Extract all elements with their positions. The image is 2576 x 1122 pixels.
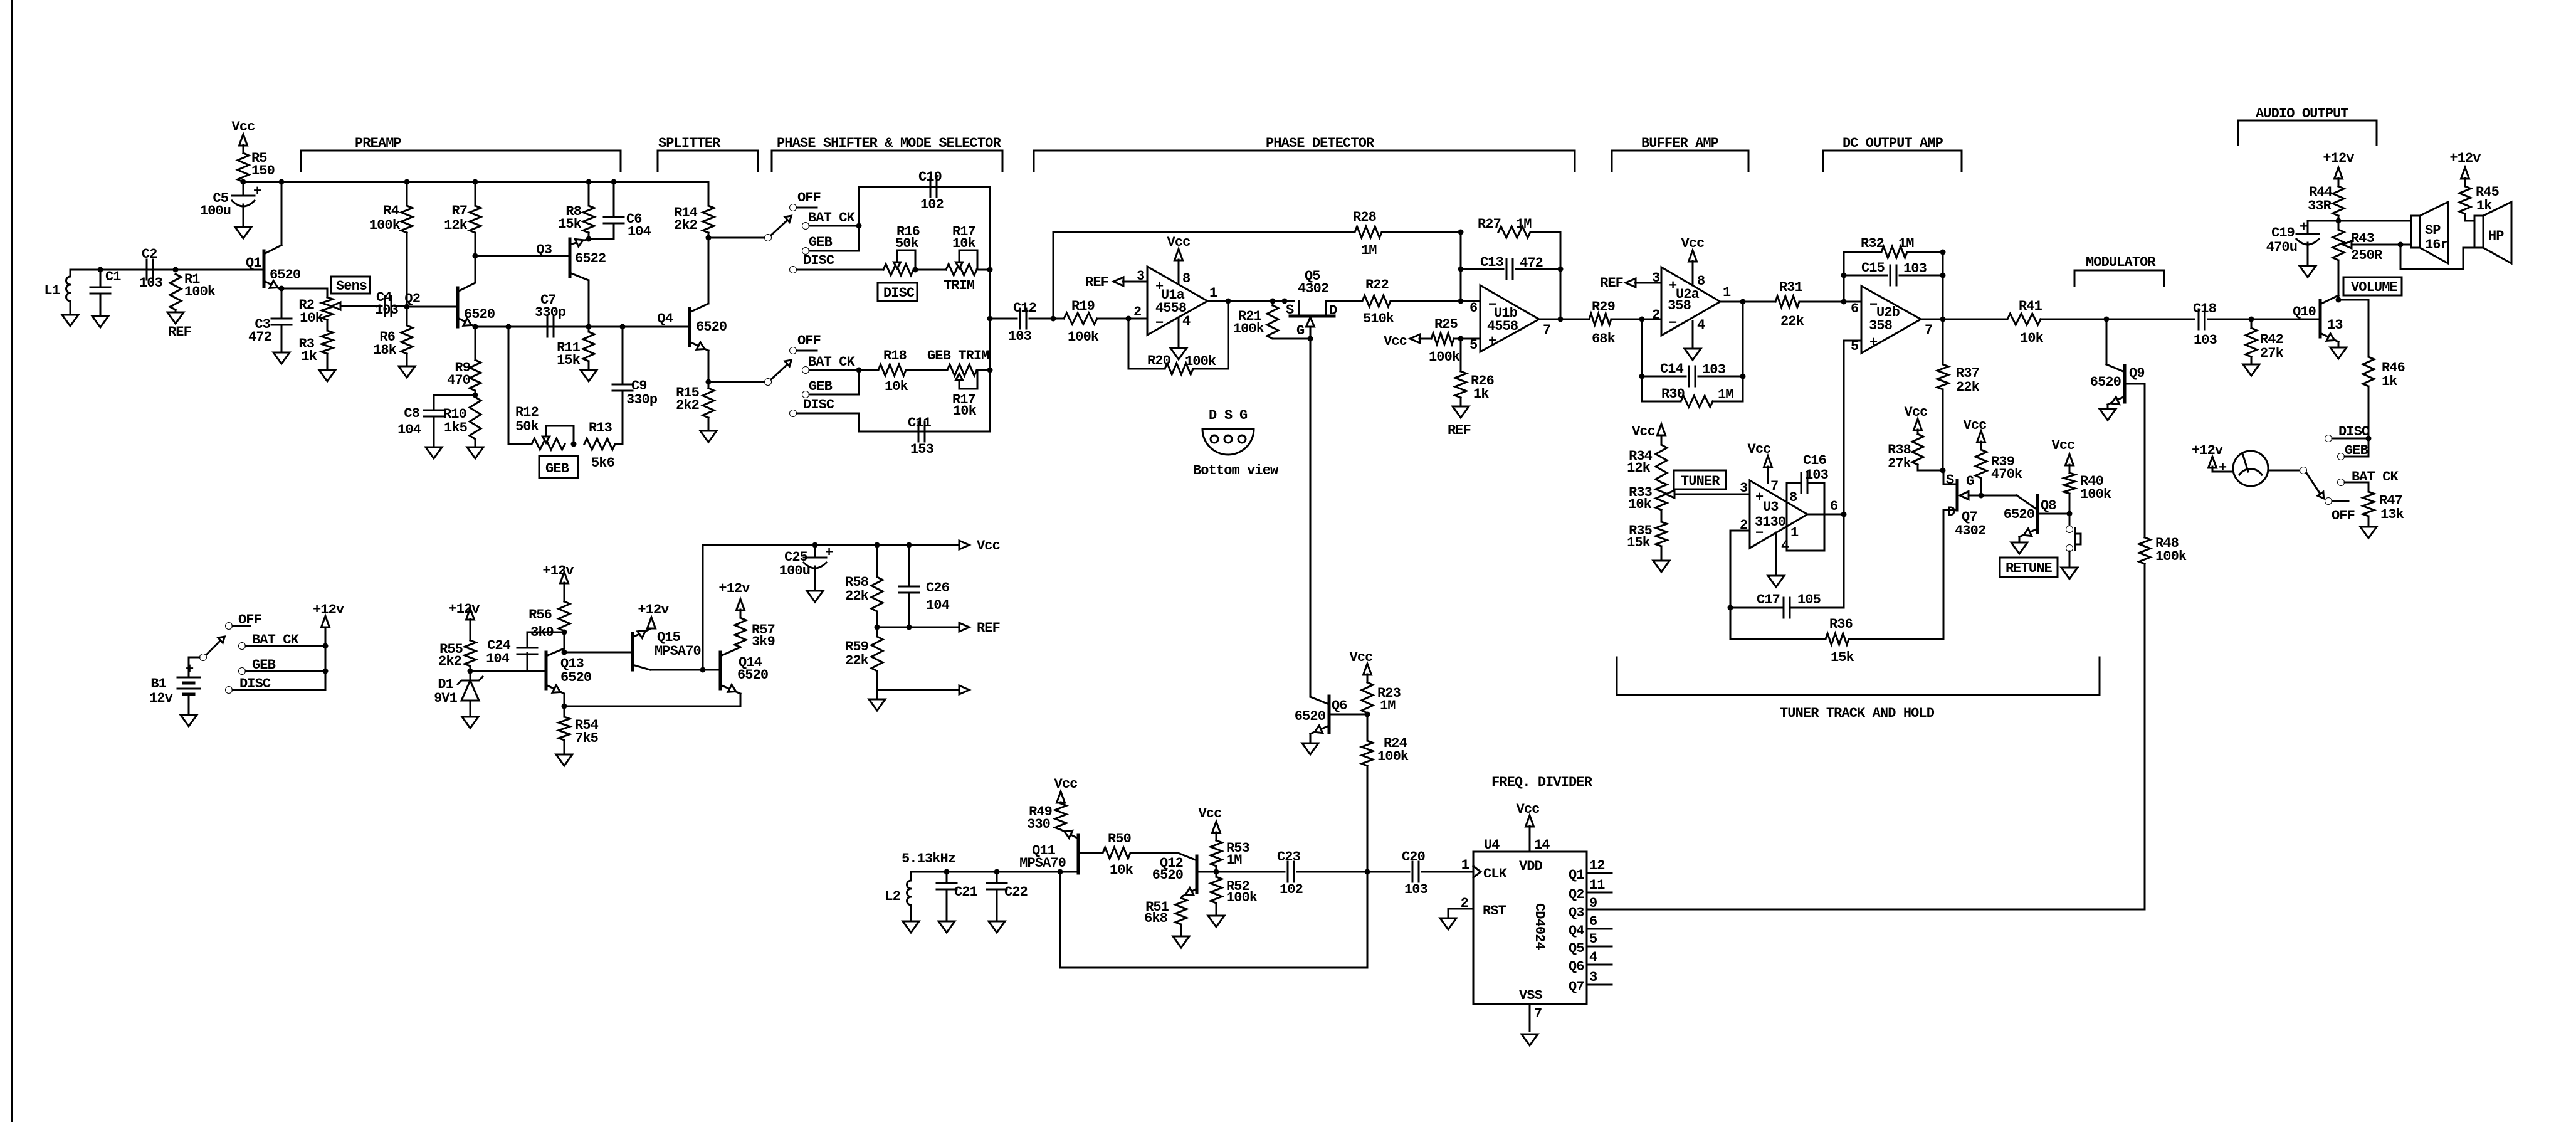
svg-text:470k: 470k: [1991, 467, 2022, 482]
svg-text:Q5: Q5: [1569, 941, 1584, 956]
potentiometer R12: [508, 327, 577, 450]
svg-text:VOLUME: VOLUME: [2351, 280, 2398, 295]
svg-text:1M: 1M: [1361, 243, 1377, 258]
svg-text:7k5: 7k5: [575, 731, 599, 746]
svg-text:100u: 100u: [779, 563, 810, 579]
svg-text:R29: R29: [1592, 299, 1615, 315]
svg-text:SP: SP: [2425, 223, 2441, 238]
svg-text:11: 11: [1589, 877, 1605, 893]
switch upper DISC contact: [790, 253, 834, 273]
wire Q12 to C23: [1216, 871, 1285, 873]
ground below R6: [399, 366, 415, 378]
transistor Q3: [536, 239, 606, 327]
wire Q2 base: [407, 306, 458, 308]
ground below R15: [700, 431, 717, 442]
power +12v at R56: [542, 563, 574, 591]
capacitor C9: [612, 327, 658, 444]
svg-text:7: 7: [1543, 322, 1550, 338]
svg-text:Bottom view: Bottom view: [1193, 463, 1279, 479]
capacitor C17: [1730, 592, 1844, 618]
svg-text:104: 104: [926, 598, 950, 613]
capacitor C5: [200, 182, 261, 219]
label box TUNER: [1674, 470, 1726, 489]
potentiometer R2: [298, 288, 382, 326]
svg-text:Vcc: Vcc: [1632, 424, 1655, 440]
resistor R42: [2246, 319, 2284, 364]
svg-text:15k: 15k: [557, 352, 581, 368]
ground U2a pin4: [1685, 321, 1701, 360]
svg-text:TUNER TRACK AND HOLD: TUNER TRACK AND HOLD: [1780, 706, 1935, 721]
svg-text:22k: 22k: [1956, 379, 1980, 395]
svg-text:12k: 12k: [1627, 460, 1651, 476]
svg-text:470u: 470u: [2266, 240, 2297, 255]
resistor R32 feedback: [1841, 236, 1946, 319]
svg-text:HP: HP: [2488, 228, 2504, 244]
resistor R46: [2363, 300, 2405, 438]
inductor L2: [885, 872, 911, 921]
power Vcc U1a pin8: [1167, 235, 1191, 284]
svg-text:8: 8: [1697, 273, 1705, 289]
svg-text:BAT CK: BAT CK: [252, 632, 300, 648]
wire Vcc rail supply: [703, 542, 959, 670]
svg-text:B1: B1: [150, 676, 166, 692]
node R4 R6 C4 junction: [404, 304, 410, 310]
resistor R53: [1199, 806, 1250, 872]
svg-text:C13: C13: [1480, 255, 1504, 270]
svg-text:Vcc: Vcc: [1681, 236, 1705, 251]
svg-text:OFF: OFF: [797, 333, 821, 349]
svg-text:6: 6: [1589, 914, 1597, 929]
resistor R3: [298, 320, 333, 364]
svg-text:103: 103: [139, 275, 163, 291]
resistor R57: [718, 581, 775, 650]
wire U1b output: [1539, 317, 1589, 322]
wire Q2 emitter node: [473, 324, 690, 330]
svg-text:1M: 1M: [1380, 698, 1396, 714]
switch upper pole: [765, 216, 792, 241]
svg-text:Vcc: Vcc: [1517, 802, 1540, 817]
svg-text:G: G: [1239, 408, 1248, 423]
svg-text:Q3: Q3: [536, 242, 552, 258]
resistor R35: [1627, 510, 1667, 561]
svg-text:6520: 6520: [1295, 709, 1325, 724]
svg-text:C11: C11: [908, 415, 932, 431]
svg-text:4: 4: [1589, 950, 1597, 965]
svg-text:R43: R43: [2351, 231, 2375, 246]
transistor Q10: [2293, 295, 2343, 347]
zener D1: [434, 671, 483, 717]
svg-text:G: G: [1966, 474, 1974, 489]
ground below R35: [1653, 561, 1669, 572]
capacitor C23: [1277, 849, 1303, 897]
svg-text:+12v: +12v: [718, 581, 750, 596]
svg-text:14: 14: [1534, 837, 1550, 853]
svg-text:D: D: [1209, 408, 1217, 423]
svg-text:103: 103: [1702, 362, 1726, 378]
svg-text:PHASE DETECTOR: PHASE DETECTOR: [1266, 135, 1375, 151]
svg-text:22k: 22k: [845, 588, 869, 604]
ground below R3: [319, 354, 335, 381]
svg-text:C18: C18: [2193, 301, 2217, 317]
wire lower GEB junction: [856, 368, 862, 395]
svg-text:+: +: [2219, 460, 2227, 476]
resistor R55: [438, 627, 476, 671]
capacitor C4: [375, 290, 407, 318]
potentiometer R17 trim: [944, 224, 977, 294]
power +12v supply: [313, 602, 344, 690]
section header TUNER TRACK AND HOLD: [1617, 657, 2100, 721]
wire bus to C12: [990, 318, 1017, 320]
svg-text:6k8: 6k8: [1144, 911, 1168, 926]
switch output OFF contact: [2325, 498, 2355, 524]
wire Q13 collector to Q15 base: [564, 652, 633, 654]
transistor Q14: [720, 647, 768, 706]
svg-text:R4: R4: [383, 203, 399, 219]
svg-text:4302: 4302: [1955, 523, 1985, 539]
IC U4 CD4024: [1473, 837, 1587, 1004]
svg-text:1k: 1k: [1473, 386, 1489, 402]
svg-text:103: 103: [1805, 467, 1829, 483]
transistor Q9: [2090, 319, 2145, 409]
ground below R54: [556, 754, 572, 766]
resistor R29: [1589, 299, 1661, 347]
svg-text:2k2: 2k2: [676, 398, 699, 413]
svg-text:10k: 10k: [2020, 331, 2044, 346]
wire Q13 Q14 emitters: [562, 704, 741, 709]
wire oscillator tank: [911, 869, 1078, 875]
switch power pole: [200, 637, 225, 661]
power Vcc U3 pin7: [1748, 442, 1772, 483]
wire speaker bottom to HP: [2400, 245, 2476, 269]
ground Q10 emitter: [2330, 347, 2347, 359]
resistor R9: [447, 327, 481, 395]
svg-text:GEB: GEB: [2345, 443, 2368, 458]
svg-text:R19: R19: [1071, 299, 1095, 314]
svg-text:2: 2: [1461, 896, 1468, 911]
wire Vcc rail: [241, 179, 709, 185]
svg-text:RST: RST: [1483, 903, 1506, 919]
switch upper GEB contact: [802, 235, 860, 255]
bottom view labels D S G: [1209, 408, 1248, 423]
wire BAT CK to C10: [856, 187, 991, 251]
svg-text:470: 470: [447, 373, 470, 388]
arrow right R59: [959, 685, 969, 694]
resistor R15: [676, 385, 714, 431]
capacitor C21: [937, 872, 978, 921]
svg-text:1M: 1M: [1516, 216, 1532, 232]
svg-text:Vcc: Vcc: [1964, 418, 1987, 433]
svg-text:+12v: +12v: [313, 602, 344, 618]
switch output DISC contact: [2325, 424, 2372, 442]
svg-text:Q8: Q8: [2041, 498, 2056, 514]
svg-text:R36: R36: [1829, 617, 1853, 632]
switch lower pole: [765, 360, 792, 386]
svg-text:BAT CK: BAT CK: [808, 354, 856, 370]
section header MODULATOR: [2074, 255, 2164, 286]
wire U1a output: [1207, 299, 1294, 304]
svg-text:Q10: Q10: [2293, 304, 2316, 320]
wire Q5 gate down to Q6: [1310, 339, 1312, 697]
svg-text:SPLITTER: SPLITTER: [658, 135, 721, 151]
capacitor C14 feedback: [1639, 319, 1746, 401]
svg-text:12: 12: [1589, 858, 1605, 874]
svg-text:+12v: +12v: [542, 563, 574, 579]
resistor R25: [1384, 317, 1480, 365]
svg-text:CLK: CLK: [1483, 866, 1508, 882]
svg-text:RETUNE: RETUNE: [2006, 561, 2053, 576]
ground below R52: [1208, 916, 1224, 927]
svg-text:R7: R7: [451, 203, 467, 219]
label box GEB: [539, 456, 578, 478]
svg-text:1: 1: [1723, 285, 1731, 300]
resistor R30 feedback: [1642, 302, 1743, 407]
svg-text:L1: L1: [44, 283, 60, 299]
resistor R23: [1350, 650, 1401, 714]
svg-text:6520: 6520: [270, 267, 300, 283]
transistor Q1: [246, 182, 300, 290]
resistor R50: [1103, 831, 1197, 878]
power +12v at meter: [2192, 443, 2227, 476]
svg-text:105: 105: [1797, 592, 1821, 608]
svg-text:C22: C22: [1004, 884, 1028, 900]
svg-text:100u: 100u: [200, 203, 231, 219]
ground below C19: [2300, 243, 2316, 277]
svg-text:C15: C15: [1861, 260, 1885, 276]
ground below C3: [273, 352, 290, 364]
resistor R51: [1144, 898, 1187, 936]
section header AUDIO OUTPUT: [2238, 106, 2377, 145]
section header FREQ. DIVIDER: [1491, 775, 1593, 790]
svg-text:22k: 22k: [1780, 314, 1804, 329]
section header BUFFER AMP: [1612, 135, 1748, 171]
svg-text:DISC: DISC: [803, 397, 834, 413]
svg-text:D: D: [1947, 504, 1955, 520]
svg-text:R41: R41: [2019, 299, 2042, 314]
power +12v at R44: [2323, 151, 2354, 186]
svg-text:1k: 1k: [301, 349, 317, 364]
REF arrow U1a pin3: [1085, 275, 1147, 290]
node Q4 collector junction: [706, 235, 765, 241]
resistor R49: [1027, 803, 1066, 832]
svg-text:100k: 100k: [1377, 749, 1409, 765]
resistor R45: [2459, 184, 2500, 221]
svg-text:6520: 6520: [2090, 374, 2121, 390]
label box Sens: [331, 277, 370, 294]
ground below C1: [92, 316, 108, 327]
resistor R24: [1362, 714, 1409, 872]
section header PREAMP: [301, 135, 621, 171]
switch power GEB contact: [239, 657, 329, 675]
svg-text:TRIM: TRIM: [944, 278, 975, 294]
svg-text:1M: 1M: [1898, 236, 1914, 251]
resistor R31: [1775, 280, 1861, 329]
svg-text:REF: REF: [1085, 275, 1108, 290]
speaker SP: [2411, 202, 2448, 263]
svg-text:13: 13: [2327, 317, 2343, 333]
transistor Q11: [1019, 830, 1103, 873]
svg-text:C21: C21: [954, 884, 978, 900]
svg-text:100k: 100k: [184, 284, 216, 300]
transistor Q6: [1295, 696, 1370, 743]
wire R28 to U1b node: [1382, 230, 1464, 235]
svg-text:9V1: 9V1: [434, 691, 458, 706]
headphone HP: [2474, 202, 2511, 263]
wire R59 output: [877, 689, 959, 691]
svg-text:1: 1: [1209, 285, 1217, 301]
svg-text:+: +: [1488, 334, 1496, 349]
svg-text:510k: 510k: [1363, 311, 1394, 327]
node Q3 emitter junction: [586, 236, 614, 242]
svg-text:Q9: Q9: [2129, 366, 2145, 381]
capacitor C10: [918, 169, 944, 213]
transistor Q2: [404, 256, 495, 327]
potentiometer R33 tuner: [1628, 482, 1750, 512]
transistor Q13: [546, 632, 591, 706]
ground U3 pin4: [1768, 532, 1784, 587]
wire R17 to bus: [977, 269, 990, 271]
svg-text:10k: 10k: [952, 236, 976, 251]
capacitor C26: [899, 545, 950, 627]
ground Q8 emitter: [2011, 542, 2027, 554]
svg-text:8: 8: [1182, 271, 1191, 287]
resistor R58: [845, 545, 883, 627]
capacitor C3: [248, 317, 292, 352]
svg-text:2k2: 2k2: [438, 654, 461, 669]
resistor R38: [1888, 405, 1945, 474]
resistor R5: [238, 151, 275, 182]
wire R19 to U1a pin2: [1097, 316, 1147, 322]
ground below C22: [989, 921, 1005, 933]
wire R48 to U4 Q3 pin: [1587, 564, 2145, 909]
potentiometer R43 volume: [2333, 221, 2412, 300]
resistor R10: [443, 397, 481, 439]
section header PHASE DETECTOR: [1034, 135, 1575, 171]
svg-text:+: +: [253, 184, 261, 199]
wire C12 to R19: [1029, 316, 1064, 322]
svg-text:C1: C1: [105, 269, 121, 285]
svg-text:104: 104: [486, 651, 510, 667]
svg-text:3k9: 3k9: [530, 625, 554, 640]
svg-text:12k: 12k: [444, 218, 468, 233]
svg-text:+: +: [1869, 335, 1878, 351]
resistor R19: [1064, 299, 1099, 345]
U4 pin Q5: [1587, 931, 1612, 947]
svg-text:L2: L2: [885, 889, 900, 904]
REF arrow U2a pin3: [1600, 275, 1661, 291]
bottom view holes: [1211, 435, 1246, 443]
svg-text:C16: C16: [1803, 453, 1826, 468]
svg-text:150: 150: [251, 163, 275, 179]
wire Q4 emitter: [706, 351, 765, 388]
svg-text:Vcc: Vcc: [1350, 650, 1373, 665]
svg-text:−: −: [1155, 315, 1164, 331]
op-amp U2a: [1652, 267, 1731, 336]
svg-text:22k: 22k: [845, 653, 869, 669]
svg-text:1: 1: [1790, 525, 1799, 541]
svg-text:3: 3: [1589, 970, 1597, 985]
svg-text:9: 9: [1589, 896, 1597, 911]
op-amp U1a: [1133, 267, 1217, 335]
svg-text:C2: C2: [142, 246, 157, 262]
wire lower DISC to C11: [859, 413, 990, 431]
svg-text:REF: REF: [977, 620, 1000, 636]
op-amp U3: [1740, 479, 1837, 554]
switch upper BAT CK contact: [802, 210, 860, 230]
resistor R39: [1964, 418, 2022, 495]
svg-text:102: 102: [1280, 882, 1303, 897]
svg-text:+12v: +12v: [2323, 151, 2354, 166]
wire input node: [70, 267, 264, 273]
svg-text:3: 3: [1740, 480, 1748, 496]
svg-text:103: 103: [2194, 332, 2217, 348]
switch power OFF contact: [226, 612, 261, 630]
resistor R59: [845, 627, 883, 690]
svg-text:PREAMP: PREAMP: [355, 135, 402, 151]
wire U2b output: [1921, 317, 2007, 322]
svg-text:Vcc: Vcc: [2052, 438, 2075, 453]
svg-text:472: 472: [248, 329, 271, 345]
ground Q6 emitter: [1302, 743, 1318, 754]
svg-text:Q4: Q4: [1569, 923, 1584, 939]
svg-text:100k: 100k: [2080, 487, 2111, 502]
svg-text:−: −: [1669, 315, 1677, 331]
resistor R48: [2139, 536, 2187, 564]
svg-text:100k: 100k: [1185, 354, 1216, 369]
svg-text:+12v: +12v: [638, 602, 669, 618]
svg-text:REF: REF: [1448, 423, 1471, 438]
meter: [2233, 451, 2268, 486]
svg-text:6: 6: [1830, 499, 1837, 514]
capacitor C16: [1787, 453, 1829, 551]
svg-text:33R: 33R: [2308, 198, 2332, 214]
svg-text:C17: C17: [1757, 592, 1780, 608]
resistor R54: [559, 706, 599, 754]
capacitor C1: [90, 269, 121, 316]
svg-text:CD4024: CD4024: [1532, 903, 1547, 950]
transistor Q5 jfet: [1286, 268, 1337, 342]
power Vcc at R5: [232, 119, 255, 153]
wire Q7 gate to Q8: [1981, 495, 2037, 510]
switch power DISC contact: [226, 676, 326, 694]
resistor R41: [2007, 299, 2194, 346]
capacitor C6: [604, 182, 651, 240]
resistor R1: [170, 272, 216, 310]
svg-text:GEB TRIM: GEB TRIM: [927, 348, 989, 364]
svg-text:GEB: GEB: [809, 379, 833, 394]
wire R16 to R17: [915, 269, 946, 271]
inductor L1: [44, 270, 70, 301]
power Vcc U4 pin14: [1517, 802, 1550, 853]
svg-text:R56: R56: [528, 607, 552, 623]
Vcc arrow right: [959, 538, 1000, 554]
svg-text:DC OUTPUT AMP: DC OUTPUT AMP: [1843, 135, 1943, 151]
U4 pin Q1: [1587, 858, 1612, 874]
capacitor C18: [2193, 301, 2217, 348]
svg-text:6522: 6522: [575, 251, 606, 267]
svg-text:Sens: Sens: [336, 278, 367, 294]
wire U3 output: [1807, 512, 1847, 517]
svg-text:OFF: OFF: [797, 190, 821, 206]
svg-text:+12v: +12v: [448, 601, 480, 617]
wire U2b pin5 to U3 output: [1844, 341, 1861, 608]
svg-text:6520: 6520: [464, 307, 495, 322]
node Q10 collector volume: [2336, 297, 2369, 303]
svg-text:C14: C14: [1660, 361, 1684, 377]
ground below R10: [467, 439, 483, 458]
transistor Q8: [2004, 495, 2073, 542]
ground below C21: [938, 921, 955, 933]
node Q3 base junction: [473, 253, 570, 259]
